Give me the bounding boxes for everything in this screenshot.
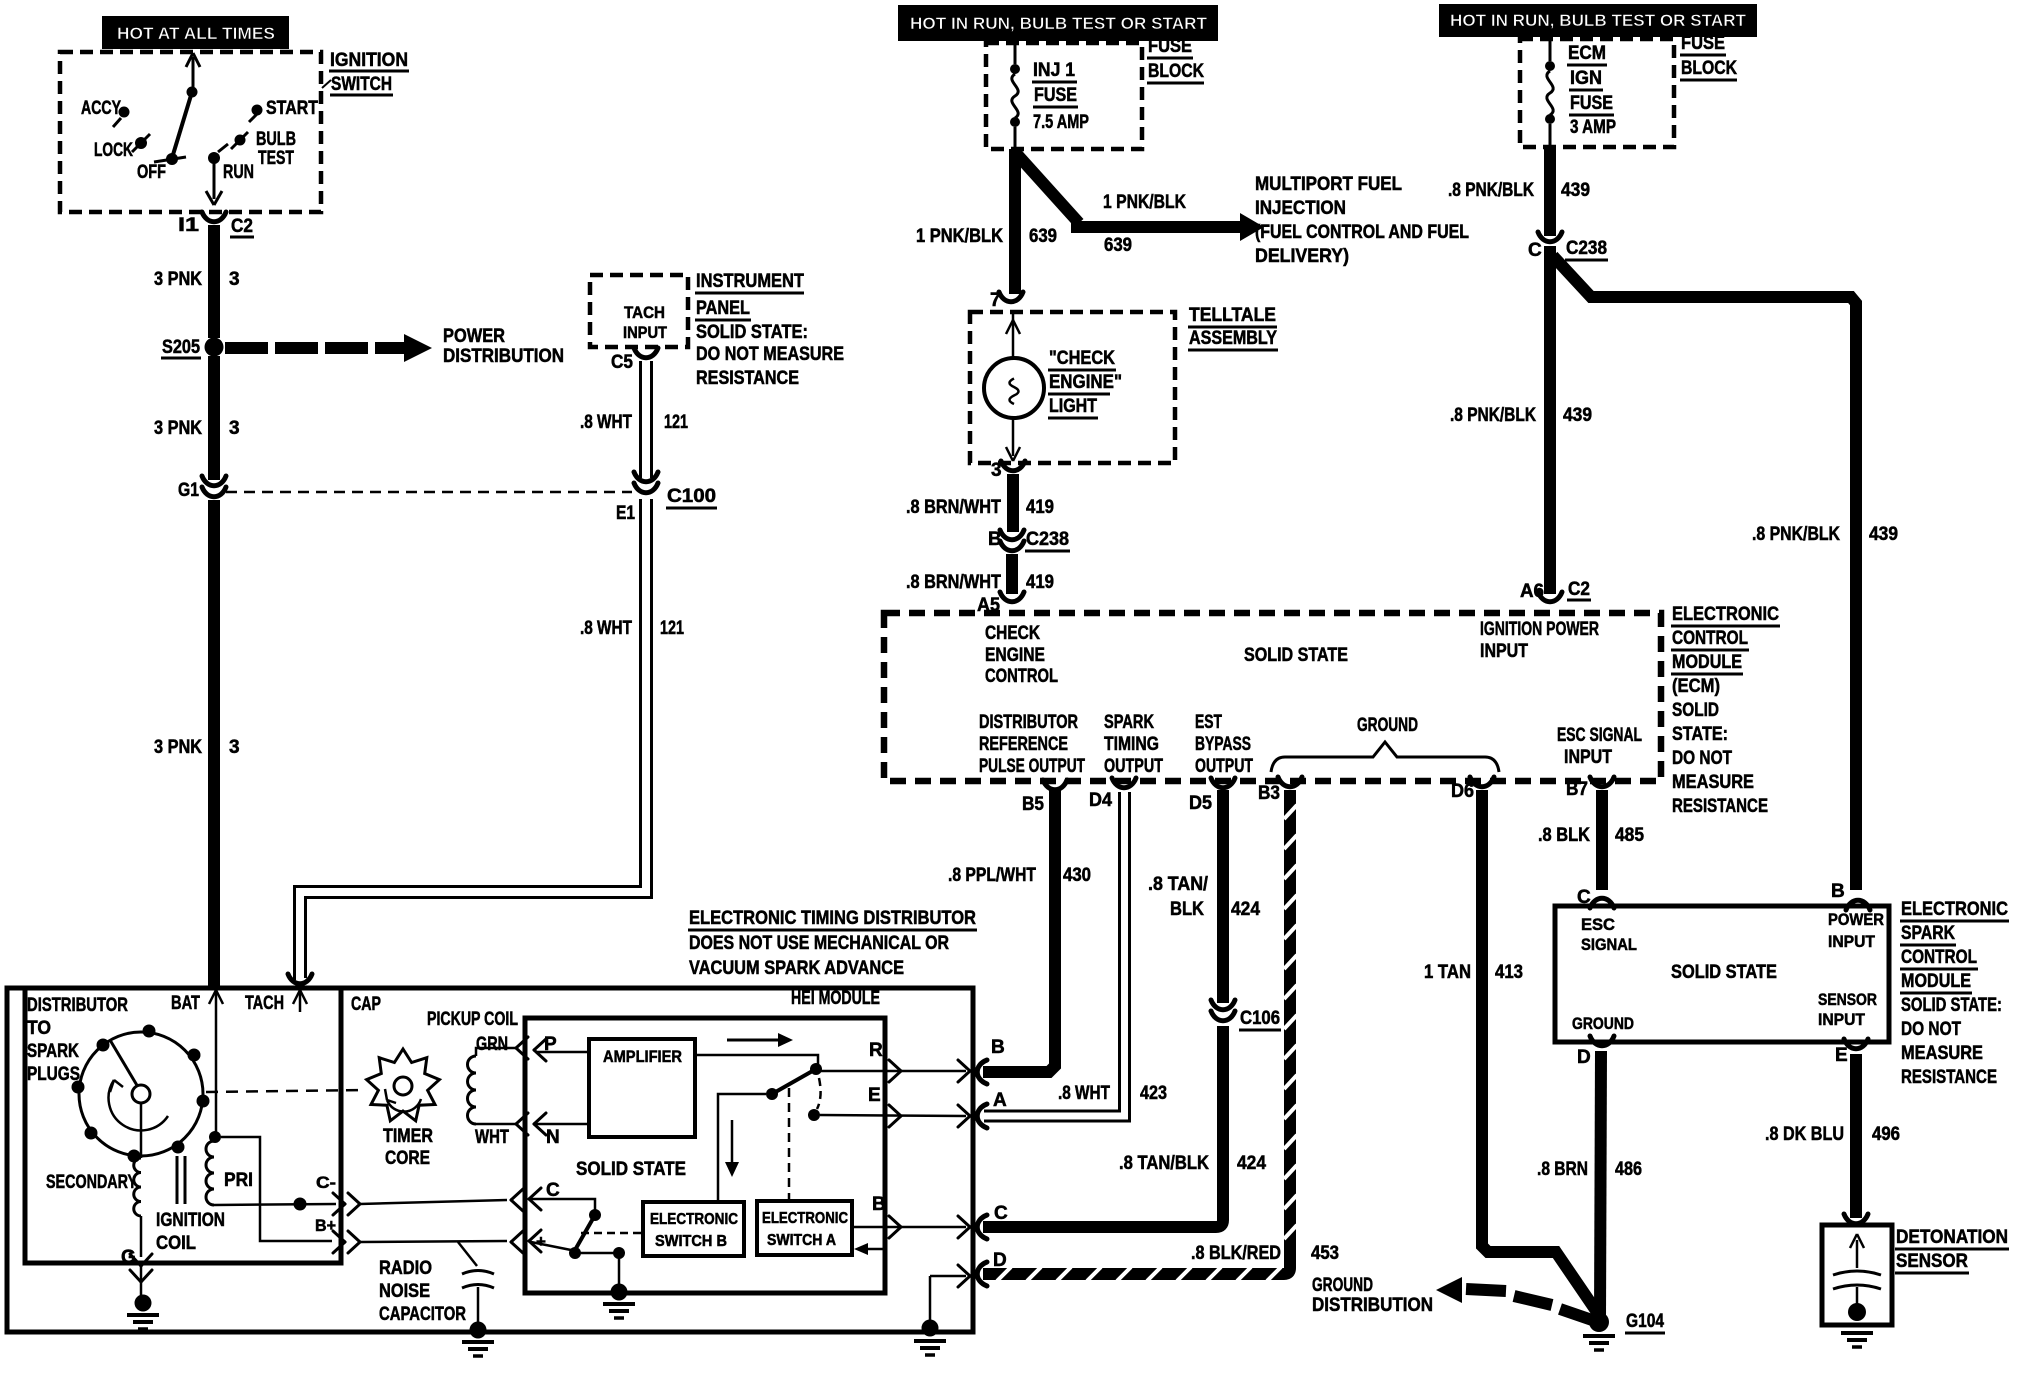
connector C2 pin I1	[178, 212, 254, 237]
svg-text:.8 DK BLU: .8 DK BLU	[1765, 1124, 1844, 1145]
svg-text:.8 BLK: .8 BLK	[1538, 825, 1590, 846]
fuse block label (left)	[1147, 36, 1204, 83]
svg-text:.8 PNK/BLK: .8 PNK/BLK	[1450, 405, 1536, 426]
svg-text:.8 PNK/BLK: .8 PNK/BLK	[1448, 180, 1534, 201]
svg-text:.8 TAN/BLK: .8 TAN/BLK	[1119, 1153, 1209, 1174]
ESC pin label SENSOR INPUT	[1818, 990, 1877, 1029]
connector pin C (ESC)	[1577, 887, 1614, 908]
ECM pin label GROUND with brace	[1271, 715, 1499, 772]
connector C238 pin C	[1528, 232, 1608, 261]
ECM pin label IGNITION POWER INPUT	[1480, 619, 1599, 662]
svg-text:REFERENCE: REFERENCE	[979, 734, 1068, 755]
svg-text:TIMER: TIMER	[383, 1126, 433, 1147]
svg-text:C2: C2	[231, 216, 253, 237]
terminal TACH	[245, 990, 307, 1014]
svg-text:HOT IN RUN, BULB TEST OR START: HOT IN RUN, BULB TEST OR START	[1450, 11, 1747, 30]
wire rotor to timer core (dashed)	[206, 1090, 366, 1092]
wire .8 PNK/BLK 439 branch to ESC power	[1553, 256, 1898, 890]
svg-text:CONTROL: CONTROL	[1672, 628, 1748, 649]
contact ACCY	[81, 98, 130, 127]
connector C2 pin A6	[1520, 579, 1591, 602]
svg-text:CAPACITOR: CAPACITOR	[379, 1304, 466, 1325]
svg-text:WHT: WHT	[475, 1127, 509, 1148]
svg-text:TEST: TEST	[258, 148, 294, 169]
fuse block box (INJ 1)	[986, 43, 1142, 149]
svg-text:IGNITION: IGNITION	[330, 50, 408, 71]
svg-text:RADIO: RADIO	[379, 1258, 432, 1279]
svg-text:IGNITION: IGNITION	[156, 1210, 225, 1231]
svg-text:HOT AT ALL TIMES: HOT AT ALL TIMES	[117, 24, 275, 43]
svg-text:3: 3	[229, 737, 240, 758]
wire terminal D to internal ground	[914, 1265, 970, 1355]
svg-text:MODULE: MODULE	[1672, 652, 1742, 673]
check engine light label	[1048, 348, 1122, 418]
svg-text:SECONDARY: SECONDARY	[46, 1172, 137, 1193]
svg-text:DELIVERY): DELIVERY)	[1255, 246, 1349, 267]
svg-text:POWER: POWER	[1828, 910, 1884, 929]
svg-text:INPUT: INPUT	[1564, 747, 1612, 768]
connector pin B (ESC power input)	[1831, 881, 1870, 910]
svg-text:ASSEMBLY: ASSEMBLY	[1189, 328, 1277, 349]
svg-text:FUSE: FUSE	[1148, 36, 1192, 57]
svg-text:INJECTION: INJECTION	[1255, 198, 1346, 219]
wire WHT to N	[516, 1113, 589, 1148]
arrow into switch A	[854, 1243, 884, 1255]
ignition coil core	[156, 1156, 225, 1254]
svg-text:419: 419	[1026, 572, 1054, 593]
svg-text:413: 413	[1495, 962, 1523, 983]
svg-text:3 PNK: 3 PNK	[154, 418, 202, 439]
svg-text:PICKUP COIL: PICKUP COIL	[427, 1009, 518, 1030]
contact START	[249, 98, 318, 122]
wire .8 BRN/WHT 419 (upper)	[906, 474, 1054, 532]
check engine light bulb	[984, 313, 1044, 461]
svg-text:LOCK: LOCK	[94, 140, 133, 161]
svg-text:ENGINE": ENGINE"	[1049, 372, 1122, 393]
svg-text:439: 439	[1561, 180, 1590, 201]
svg-text:B: B	[991, 1037, 1005, 1058]
svg-text:ELECTRONIC: ELECTRONIC	[762, 1210, 848, 1227]
svg-text:D4: D4	[1089, 790, 1112, 811]
distributor cap circle with contacts	[72, 1025, 210, 1163]
svg-text:.8 PNK/BLK: .8 PNK/BLK	[1752, 524, 1840, 545]
ECM pin label ESC SIGNAL INPUT	[1557, 725, 1642, 768]
svg-text:HEI MODULE: HEI MODULE	[791, 988, 880, 1009]
svg-text:MEASURE: MEASURE	[1901, 1043, 1983, 1064]
wire RUN output arrow	[206, 161, 222, 205]
wire .8 WHT 121 (lower, open) to distributor TACH	[288, 499, 684, 984]
svg-text:BLOCK: BLOCK	[1148, 61, 1204, 82]
svg-text:423: 423	[1140, 1083, 1167, 1104]
svg-text:CHECK: CHECK	[985, 623, 1040, 644]
svg-text:A: A	[993, 1090, 1007, 1111]
connector pin E (ESC sensor input)	[1835, 1039, 1868, 1066]
svg-text:3 AMP: 3 AMP	[1570, 117, 1616, 138]
ESC pin label ESC SIGNAL	[1581, 915, 1637, 954]
svg-text:DISTRIBUTOR: DISTRIBUTOR	[27, 995, 128, 1016]
svg-text:EST: EST	[1195, 712, 1222, 733]
svg-text:"CHECK: "CHECK	[1049, 348, 1115, 369]
svg-text:TACH: TACH	[624, 303, 665, 322]
ignition switch label	[322, 50, 409, 95]
svg-text:SWITCH B: SWITCH B	[655, 1233, 727, 1250]
svg-text:ELECTRONIC: ELECTRONIC	[1672, 604, 1779, 625]
wire PRI to C- with tach junction	[214, 1198, 336, 1211]
svg-text:SOLID STATE:: SOLID STATE:	[696, 322, 808, 343]
connector pin D (ESC ground)	[1577, 1036, 1614, 1068]
svg-text:.8 BRN/WHT: .8 BRN/WHT	[906, 572, 1001, 593]
svg-text:LIGHT: LIGHT	[1049, 396, 1097, 417]
svg-text:3 PNK: 3 PNK	[154, 269, 202, 290]
svg-text:INPUT: INPUT	[623, 323, 668, 342]
svg-text:.8 BRN/WHT: .8 BRN/WHT	[906, 497, 1001, 518]
svg-text:BLOCK: BLOCK	[1681, 58, 1737, 79]
svg-text:E: E	[1835, 1045, 1848, 1066]
ESC module label (right)	[1900, 899, 2009, 1088]
connector pin B3	[1258, 777, 1302, 804]
ground (detonation sensor)	[1841, 1333, 1873, 1347]
svg-text:C100: C100	[667, 486, 716, 507]
svg-text:PANEL: PANEL	[696, 298, 750, 319]
svg-text:INPUT: INPUT	[1828, 932, 1876, 951]
terminal BAT	[171, 990, 223, 1014]
ECM pin label CHECK ENGINE CONTROL	[985, 623, 1058, 687]
svg-text:453: 453	[1311, 1243, 1339, 1264]
terminal B+	[315, 1216, 507, 1253]
svg-text:ELECTRONIC TIMING DISTRIBUTOR: ELECTRONIC TIMING DISTRIBUTOR	[689, 908, 976, 929]
svg-text:430: 430	[1063, 865, 1091, 886]
svg-text:DOES NOT USE MECHANICAL OR: DOES NOT USE MECHANICAL OR	[689, 933, 949, 954]
svg-text:COIL: COIL	[156, 1233, 196, 1254]
ground (HEI module)	[603, 1284, 635, 1319]
svg-text:B7: B7	[1566, 779, 1588, 800]
svg-text:.8 PPL/WHT: .8 PPL/WHT	[948, 865, 1036, 886]
ECM pin label DISTRIBUTOR REFERENCE PULSE OUTPUT	[979, 712, 1085, 777]
wire G1 to C100 (dashed)	[226, 491, 632, 494]
svg-text:SENSOR: SENSOR	[1818, 990, 1877, 1009]
svg-text:.8 TAN/: .8 TAN/	[1148, 874, 1209, 895]
multiport fuel injection label	[1255, 174, 1469, 267]
svg-text:CORE: CORE	[385, 1148, 430, 1169]
ignition switch arm to HOT feed	[172, 53, 200, 158]
electronic timing distributor label	[688, 908, 977, 979]
terminal A (distributor)	[977, 1090, 1007, 1128]
svg-text:MEASURE: MEASURE	[1672, 772, 1754, 793]
ignition switch SW1 box	[60, 52, 321, 212]
svg-text:PULSE OUTPUT: PULSE OUTPUT	[979, 756, 1085, 777]
svg-text:CAP: CAP	[351, 994, 381, 1015]
svg-text:INSTRUMENT: INSTRUMENT	[696, 271, 804, 292]
svg-text:GRN: GRN	[476, 1034, 508, 1055]
svg-text:MULTIPORT FUEL: MULTIPORT FUEL	[1255, 174, 1402, 195]
connector pin A5	[977, 592, 1024, 616]
svg-text:B3: B3	[1258, 783, 1280, 804]
svg-text:SOLID: SOLID	[1672, 700, 1719, 721]
distributor to spark plugs label	[27, 995, 128, 1085]
svg-text:419: 419	[1026, 497, 1054, 518]
connector pin B5	[1022, 780, 1067, 815]
wire .8 TAN/BLK 424 (lower)	[983, 1026, 1266, 1227]
tach input box (instrument panel)	[590, 275, 688, 347]
ground G104	[1583, 1311, 1665, 1350]
svg-text:ESC SIGNAL: ESC SIGNAL	[1557, 725, 1642, 746]
connector pin 3	[991, 460, 1025, 481]
svg-text:SENSOR: SENSOR	[1896, 1251, 1968, 1272]
svg-text:ELECTRONIC: ELECTRONIC	[650, 1211, 738, 1228]
instrument panel label	[695, 271, 844, 389]
telltale assembly box	[970, 305, 1278, 463]
cap label	[351, 994, 381, 1015]
svg-text:START: START	[266, 98, 318, 119]
svg-text:FUSE: FUSE	[1681, 33, 1725, 54]
svg-text:3: 3	[229, 269, 240, 290]
svg-text:VACUUM SPARK ADVANCE: VACUUM SPARK ADVANCE	[689, 958, 904, 979]
terminal C (distributor)	[977, 1203, 1008, 1239]
contact LOCK	[94, 134, 150, 161]
ESC module U2 box	[1555, 906, 1889, 1042]
svg-text:.8 WHT: .8 WHT	[1058, 1083, 1110, 1104]
svg-text:D: D	[993, 1250, 1007, 1271]
terminal C (HEI input from coil)	[511, 1180, 625, 1290]
svg-text:485: 485	[1615, 825, 1644, 846]
ESC pin label GROUND	[1572, 1014, 1634, 1033]
svg-text:TELLTALE: TELLTALE	[1189, 305, 1276, 326]
terminal G and coil ground	[121, 1247, 159, 1329]
svg-text:439: 439	[1563, 405, 1592, 426]
svg-text:AMPLIFIER: AMPLIFIER	[603, 1047, 682, 1066]
contact RUN	[208, 144, 254, 183]
svg-text:BLK: BLK	[1170, 899, 1204, 920]
secondary winding	[46, 1103, 141, 1257]
svg-text:IGN: IGN	[1570, 68, 1602, 89]
svg-text:DO NOT MEASURE: DO NOT MEASURE	[696, 344, 844, 365]
svg-text:SOLID STATE: SOLID STATE	[1244, 645, 1348, 666]
primary winding PRI	[206, 1013, 253, 1205]
fuse block box (ECM IGN)	[1520, 39, 1674, 147]
svg-text:DISTRIBUTION: DISTRIBUTION	[1312, 1295, 1433, 1316]
pickup coil	[427, 1009, 518, 1148]
svg-text:(FUEL CONTROL AND FUEL: (FUEL CONTROL AND FUEL	[1255, 222, 1469, 243]
svg-text:FUSE: FUSE	[1570, 93, 1613, 114]
wire .8 PNK/BLK 439 (top)	[1448, 147, 1590, 236]
connector pin D5	[1189, 778, 1235, 814]
svg-text:INJ 1: INJ 1	[1033, 60, 1075, 81]
svg-text:D6: D6	[1451, 781, 1474, 802]
svg-text:P: P	[544, 1034, 557, 1055]
svg-text:1 PNK/BLK: 1 PNK/BLK	[1103, 192, 1186, 213]
svg-text:B: B	[1831, 881, 1845, 902]
svg-text:RESISTANCE: RESISTANCE	[1901, 1067, 1997, 1088]
terminal D (distributor)	[977, 1250, 1006, 1286]
svg-text:SOLID STATE:: SOLID STATE:	[1901, 995, 2002, 1016]
connector C106	[1211, 1000, 1281, 1030]
terminal B (distributor)	[977, 1037, 1004, 1084]
wire .8 TAN/BLK 424 (upper)	[1148, 790, 1260, 1003]
svg-text:DISTRIBUTOR: DISTRIBUTOR	[979, 712, 1078, 733]
svg-text:DO NOT: DO NOT	[1901, 1019, 1961, 1040]
svg-text:424: 424	[1231, 899, 1260, 920]
svg-text:496: 496	[1872, 1124, 1900, 1145]
svg-text:GROUND: GROUND	[1312, 1275, 1373, 1296]
svg-text:.8 WHT: .8 WHT	[580, 618, 632, 639]
svg-text:SWITCH A: SWITCH A	[767, 1232, 836, 1249]
fuse ECM IGN 3 AMP	[1545, 37, 1616, 147]
svg-text:1 TAN: 1 TAN	[1424, 962, 1471, 983]
svg-text:G104: G104	[1626, 1311, 1664, 1332]
distributor outer box	[7, 988, 973, 1332]
wire 3 PNK 3 (middle)	[154, 356, 240, 480]
svg-text:S205: S205	[162, 337, 200, 358]
svg-text:BYPASS: BYPASS	[1195, 734, 1251, 755]
svg-text:TIMING: TIMING	[1104, 734, 1159, 755]
svg-text:121: 121	[660, 618, 684, 639]
svg-text:SPARK: SPARK	[1104, 712, 1154, 733]
svg-text:C2: C2	[1568, 579, 1590, 600]
svg-text:OUTPUT: OUTPUT	[1104, 756, 1163, 777]
svg-text:SIGNAL: SIGNAL	[1581, 935, 1637, 954]
svg-text:PRI: PRI	[224, 1170, 253, 1191]
svg-text:OUTPUT: OUTPUT	[1195, 756, 1253, 777]
terminal + (HEI)	[511, 1230, 643, 1253]
svg-text:B5: B5	[1022, 794, 1044, 815]
svg-text:439: 439	[1869, 524, 1898, 545]
svg-text:PLUGS: PLUGS	[27, 1064, 80, 1085]
svg-text:.8 BRN: .8 BRN	[1537, 1159, 1588, 1180]
svg-text:SOLID STATE: SOLID STATE	[576, 1159, 686, 1180]
connector pin 7	[990, 290, 1023, 311]
connector C100 pin E1	[616, 472, 717, 524]
svg-text:639: 639	[1029, 226, 1057, 247]
ground (radio noise capacitor)	[462, 1342, 494, 1356]
svg-text:SOLID STATE: SOLID STATE	[1671, 962, 1777, 983]
svg-text:DO NOT: DO NOT	[1672, 748, 1732, 769]
wire .8 PNK/BLK 439 to A6	[1450, 246, 1592, 594]
svg-text:3: 3	[229, 418, 240, 439]
wire 1 PNK/BLK 639 vertical	[916, 149, 1057, 294]
svg-text:INPUT: INPUT	[1818, 1010, 1866, 1029]
svg-text:ENGINE: ENGINE	[985, 645, 1045, 666]
svg-text:C: C	[1528, 240, 1542, 261]
fuse block label (right)	[1680, 33, 1737, 80]
wire 1 PNK/BLK 639 branch to fuel injection	[1015, 152, 1264, 256]
svg-text:CONTROL: CONTROL	[1901, 947, 1977, 968]
rotor	[109, 1040, 168, 1130]
wire .8 DK BLU 496	[1765, 1054, 1900, 1218]
svg-text:TACH: TACH	[245, 993, 284, 1014]
contact OFF	[137, 153, 186, 183]
svg-text:D5: D5	[1189, 793, 1212, 814]
svg-text:TO: TO	[27, 1018, 51, 1039]
svg-text:E1: E1	[616, 503, 635, 524]
svg-text:STATE:: STATE:	[1672, 724, 1728, 745]
connector pin D6	[1451, 777, 1494, 802]
svg-text:.8 BLK/RED: .8 BLK/RED	[1191, 1243, 1281, 1264]
connector C5	[611, 348, 658, 373]
power label HOT IN RUN, BULB TEST OR START (right)	[1439, 4, 1757, 37]
svg-text:R: R	[869, 1040, 883, 1061]
svg-text:.8 WHT: .8 WHT	[580, 412, 632, 433]
svg-text:RESISTANCE: RESISTANCE	[696, 368, 799, 389]
wire 3 PNK 3 (upper)	[154, 225, 240, 338]
switch dashed links	[789, 1078, 821, 1200]
solid state label (HEI)	[576, 1159, 686, 1180]
detonation sensor	[1822, 1214, 1892, 1325]
connector pin B7	[1566, 777, 1614, 800]
svg-text:ECM: ECM	[1568, 43, 1606, 64]
ESC SOLID STATE	[1671, 962, 1777, 983]
svg-text:I1: I1	[178, 215, 200, 236]
distributor cap inner box	[25, 990, 341, 1263]
svg-text:ESC: ESC	[1581, 915, 1615, 934]
wire .8 BRN 486	[1537, 1051, 1642, 1318]
svg-text:RESISTANCE: RESISTANCE	[1672, 796, 1768, 817]
svg-text:BAT: BAT	[171, 993, 200, 1014]
svg-text:C238: C238	[1566, 238, 1607, 259]
HEI module box	[525, 988, 885, 1293]
svg-text:SWITCH: SWITCH	[331, 74, 392, 95]
wire 3 PNK 3 (lower)	[154, 500, 240, 986]
contact BULB TEST	[231, 129, 296, 169]
feedback arrow (switch B)	[725, 1120, 739, 1177]
wire .8 PPL/WHT 430	[948, 790, 1091, 1072]
svg-text:BULB: BULB	[256, 129, 296, 150]
ECM U1 (electronic control module) box	[884, 613, 1661, 781]
svg-text:424: 424	[1237, 1153, 1266, 1174]
connector C238 pin B	[988, 529, 1070, 551]
electronic switch A	[757, 1201, 852, 1255]
wire .8 BLK 485	[1538, 790, 1644, 890]
svg-text:C106: C106	[1240, 1008, 1280, 1029]
power label HOT IN RUN, BULB TEST OR START (left)	[898, 5, 1218, 41]
wire BAT bypass to B+	[221, 1137, 332, 1241]
terminal C-	[316, 1173, 507, 1215]
svg-text:GROUND: GROUND	[1572, 1014, 1634, 1033]
ESC pin label POWER INPUT	[1828, 910, 1884, 951]
svg-text:OFF: OFF	[137, 162, 166, 183]
wire B output (HEI to terminal C)	[852, 1194, 970, 1238]
svg-text:HOT IN RUN, BULB TEST OR START: HOT IN RUN, BULB TEST OR START	[910, 14, 1208, 33]
wire .8 WHT 121 (upper, open)	[580, 361, 688, 478]
svg-text:G1: G1	[178, 480, 199, 501]
svg-text:MODULE: MODULE	[1901, 971, 1971, 992]
svg-text:1 PNK/BLK: 1 PNK/BLK	[916, 226, 1003, 247]
ECM pin label SPARK TIMING OUTPUT	[1104, 712, 1163, 777]
wire E output	[820, 1085, 970, 1127]
wire to ground distribution (dashed arrow)	[1311, 1243, 1592, 1320]
svg-text:NOISE: NOISE	[379, 1281, 430, 1302]
svg-text:GROUND: GROUND	[1357, 715, 1418, 736]
wire to power distribution (dashed arrow)	[225, 326, 564, 367]
svg-text:SPARK: SPARK	[1901, 923, 1955, 944]
svg-text:DETONATION: DETONATION	[1896, 1227, 2008, 1248]
wire amplifier output to switch	[695, 1055, 822, 1202]
svg-text:C238: C238	[1026, 529, 1069, 550]
wire R output	[820, 1040, 970, 1082]
wire GRN to P	[516, 1034, 589, 1061]
svg-text:3 PNK: 3 PNK	[154, 737, 202, 758]
wire .8 BLK/RED 453 (hatched)	[983, 790, 1297, 1281]
svg-text:486: 486	[1615, 1159, 1642, 1180]
connector pin D4	[1089, 778, 1136, 811]
svg-text:ACCY: ACCY	[81, 98, 121, 119]
svg-text:+: +	[536, 1232, 546, 1251]
svg-text:SPARK: SPARK	[27, 1041, 79, 1062]
svg-text:E: E	[868, 1085, 881, 1106]
svg-text:639: 639	[1104, 235, 1132, 256]
svg-text:INPUT: INPUT	[1480, 641, 1528, 662]
svg-text:121: 121	[664, 412, 688, 433]
current direction arrow	[727, 1033, 793, 1047]
